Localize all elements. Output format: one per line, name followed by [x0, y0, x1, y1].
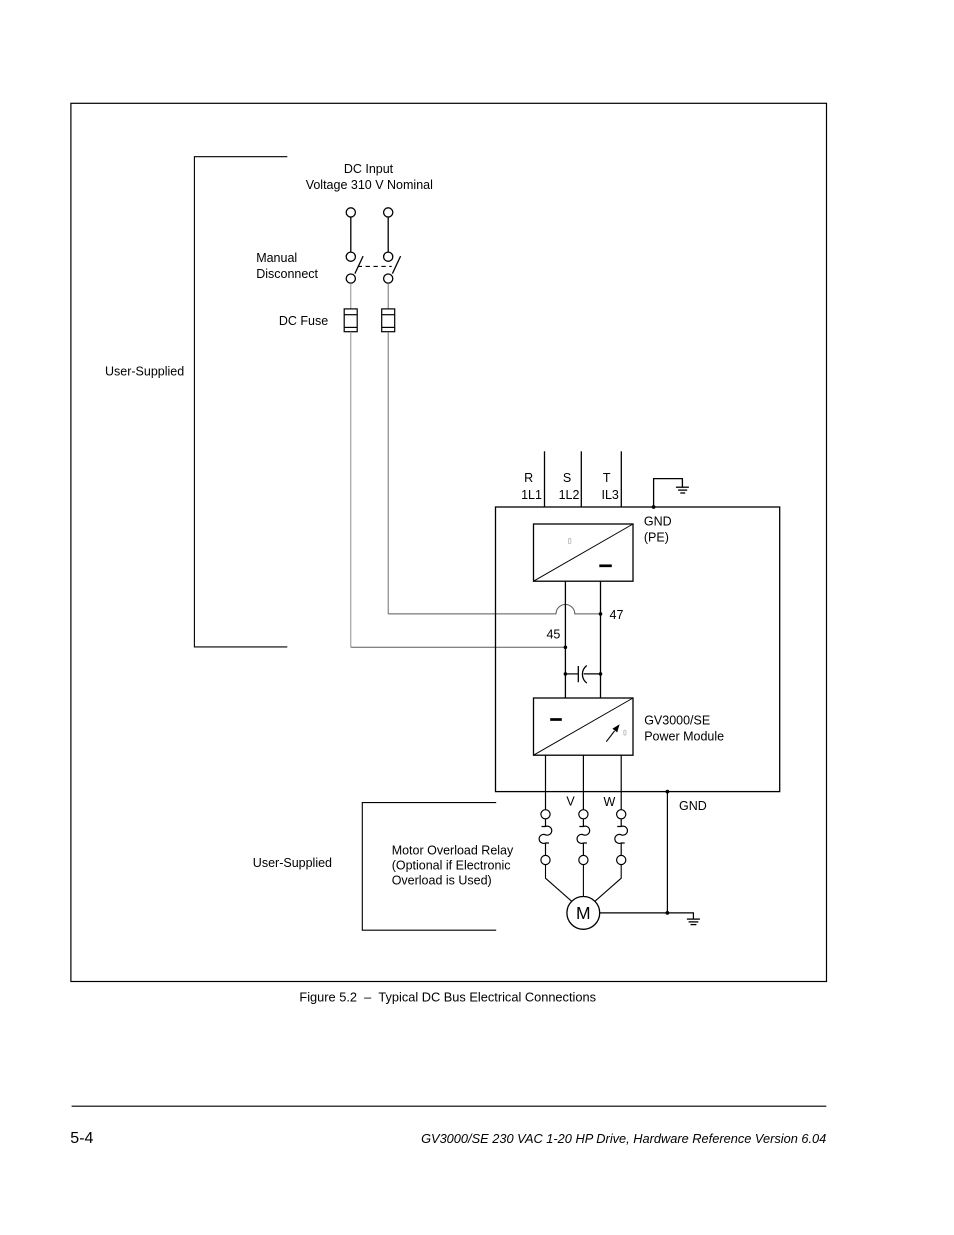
wire output V [582, 755, 584, 810]
svg-text:(Optional if Electronic: (Optional if Electronic [392, 858, 511, 872]
wire output W [620, 755, 622, 810]
svg-text:V: V [566, 795, 575, 809]
overload element phase W [615, 810, 628, 865]
svg-text:IL3: IL3 [602, 488, 619, 502]
wire fuse F1 to node 45 (long vertical run) [350, 332, 352, 648]
svg-text:DC Input: DC Input [344, 162, 394, 176]
svg-text:Figure 5.2 – Typical DC Bus: Figure 5.2 – Typical DC Bus Electrical C… [299, 989, 596, 1004]
node PE junction dot [652, 505, 656, 509]
wire overload U to motor [546, 865, 572, 902]
wire overload W to motor [595, 865, 621, 902]
overload element phase V [577, 810, 590, 865]
svg-text:GND: GND [679, 799, 707, 813]
converter U1 (AC/DC block) [534, 524, 634, 581]
inverter f mark (faint) [624, 730, 626, 735]
svg-text:Motor Overload Relay: Motor Overload Relay [392, 843, 514, 857]
capacitor C (DC bus) [565, 666, 600, 684]
svg-text:Overload is Used): Overload is Used) [392, 874, 492, 888]
svg-text:GV3000/SE: GV3000/SE [644, 714, 710, 728]
wire disconnect pole1 to fuse F1 [350, 283, 352, 309]
svg-text:Disconnect: Disconnect [256, 267, 318, 281]
wire PE to earth [654, 479, 683, 507]
wire input T [620, 451, 622, 507]
wire input S [580, 451, 582, 507]
node motor ground junction dot [666, 911, 670, 915]
svg-text:(PE): (PE) [644, 530, 669, 544]
svg-text:GND: GND [644, 514, 672, 528]
svg-text:DC Fuse: DC Fuse [279, 314, 328, 328]
node 45 junction dot [564, 646, 568, 650]
power module enclosure box [496, 507, 780, 792]
fuse F2 [382, 309, 395, 332]
figure border frame [71, 103, 827, 981]
label Motor Overload Relay [392, 843, 514, 887]
label DC Input Voltage 310 V Nominal [306, 162, 433, 192]
ground PE earth symbol [676, 487, 689, 493]
svg-text:W: W [603, 795, 615, 809]
wire DC bus - (converter to inverter, right) [600, 581, 602, 698]
svg-text:Voltage 310 V Nominal: Voltage 310 V Nominal [306, 178, 433, 192]
svg-text:45: 45 [546, 628, 560, 642]
svg-text:M: M [576, 903, 591, 923]
wire GND vertical run [666, 792, 668, 913]
overload element phase U [539, 810, 552, 865]
node GND junction dot on enclosure [666, 790, 670, 794]
wire motor frame to ground [600, 913, 694, 919]
fuse F1 [344, 309, 357, 332]
disconnect switch pole 2 [384, 252, 401, 283]
svg-text:Manual: Manual [256, 251, 297, 265]
footer rule [72, 1105, 827, 1107]
svg-text:47: 47 [610, 608, 624, 622]
svg-text:1L2: 1L2 [559, 488, 580, 502]
wire terminal DC- to disconnect [387, 217, 389, 252]
wire output U [545, 755, 547, 810]
wire disconnect pole2 to fuse F2 [387, 283, 389, 309]
converter AC mark (faint) [568, 538, 571, 543]
svg-text:Power Module: Power Module [644, 729, 724, 743]
label GV3000/SE Power Module [644, 714, 724, 744]
svg-text:GV3000/SE 230 VAC 1-20 HP Driv: GV3000/SE 230 VAC 1-20 HP Drive, Hardwar… [421, 1131, 826, 1146]
svg-text:1L1: 1L1 [521, 488, 542, 502]
inverter U2 (DC/AC block) [534, 698, 634, 755]
svg-text:5-4: 5-4 [70, 1130, 93, 1147]
svg-text:User-Supplied: User-Supplied [253, 856, 332, 870]
wire DC bus + (converter to inverter, left) [564, 581, 566, 698]
terminal DC+ (left input terminal) [346, 208, 355, 217]
svg-text:S: S [563, 471, 571, 485]
user-supplied bracket (input side) [194, 157, 287, 647]
user-supplied bracket (overload relay) [362, 803, 496, 931]
pin label S 1L2 [559, 471, 580, 502]
wire fuse F2 to node 47 (long vertical run) [387, 332, 389, 614]
inverter variable-frequency arrow [606, 724, 619, 742]
converter DC mark (thick dash) [599, 564, 612, 567]
disconnect linkage (dashed) [358, 265, 392, 267]
wire input R [544, 451, 546, 507]
inverter DC mark (thick dash) [550, 718, 562, 721]
disconnect switch pole 1 [346, 252, 363, 283]
terminal DC- (right input terminal) [384, 208, 393, 217]
node capacitor - junction dot [599, 672, 603, 676]
ground motor earth symbol [687, 919, 700, 925]
label Manual Disconnect [256, 251, 318, 281]
wire terminal DC+ to disconnect [350, 217, 352, 252]
svg-text:R: R [524, 471, 533, 485]
node 47 junction dot [599, 612, 603, 616]
wire 47 bus horizontal run with hop over +bus [388, 605, 600, 614]
wire overload V to motor [582, 865, 584, 897]
pin label T IL3 [602, 471, 619, 502]
motor M1 [567, 897, 600, 930]
svg-text:User-Supplied: User-Supplied [105, 365, 184, 379]
pin label R 1L1 [521, 471, 542, 502]
svg-text:T: T [603, 471, 611, 485]
label GND (PE) [644, 514, 672, 544]
node capacitor + junction dot [564, 672, 568, 676]
wire 45 bus horizontal run [351, 646, 566, 648]
